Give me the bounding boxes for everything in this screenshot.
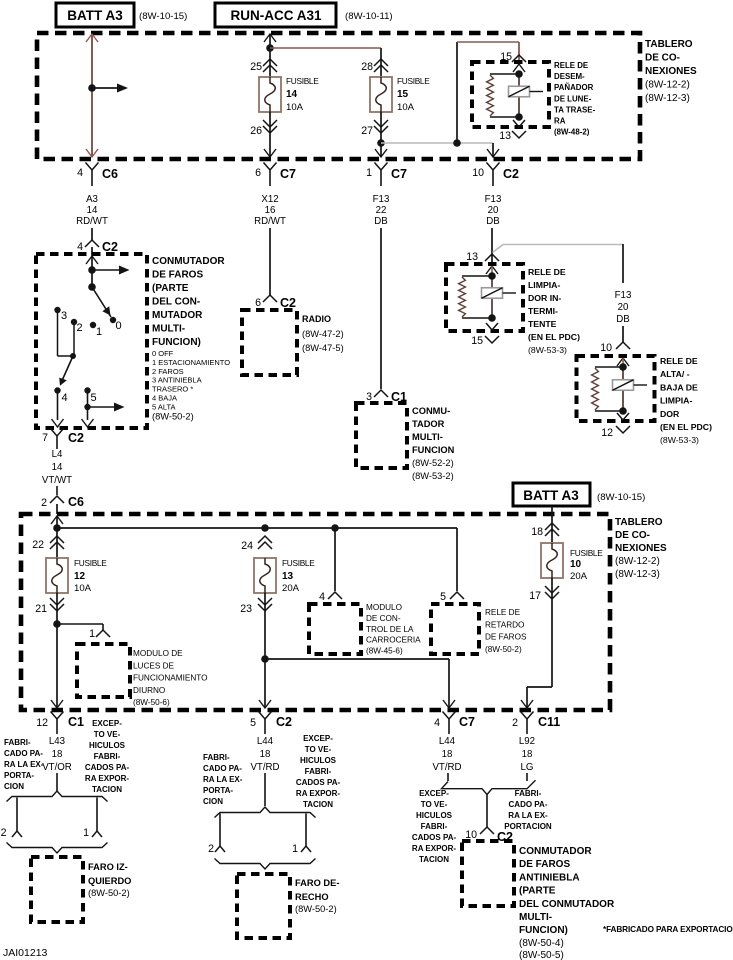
svg-text:4: 4 xyxy=(77,167,83,179)
svg-text:RA: RA xyxy=(554,117,566,126)
junction node RUN-ACC xyxy=(266,44,274,52)
svg-text:13: 13 xyxy=(466,251,478,263)
wire contact 3 down xyxy=(57,312,59,356)
wire contact 5 down xyxy=(87,392,89,420)
merge brace (fog lamp switch) xyxy=(442,780,536,794)
arrow into top border (BATT A3) xyxy=(86,34,98,42)
connector 5 C2 (bottom) xyxy=(259,712,272,720)
connector 6 C7 xyxy=(264,163,277,171)
svg-text:JAI01213: JAI01213 xyxy=(3,947,48,959)
svg-text:TERMI-: TERMI- xyxy=(528,306,558,316)
svg-text:FABRI-: FABRI- xyxy=(421,822,448,831)
wire fuse F14 to connector C7 xyxy=(269,112,271,157)
svg-text:(8W-45-6): (8W-45-6) xyxy=(366,647,403,656)
svg-text:TADOR: TADOR xyxy=(412,419,445,429)
svg-text:(8W-53-3): (8W-53-3) xyxy=(660,435,699,445)
junction block TABLERO DE CONEXIONES (bottom) xyxy=(21,514,610,710)
svg-text:CION: CION xyxy=(203,797,223,806)
svg-text:15: 15 xyxy=(471,335,483,347)
svg-text:TACION: TACION xyxy=(92,785,122,794)
bus wire in lower block xyxy=(57,527,457,529)
svg-text:C7: C7 xyxy=(459,715,475,729)
svg-text:CADOS PA-: CADOS PA- xyxy=(85,763,130,772)
svg-text:(8W-12-2): (8W-12-2) xyxy=(615,556,660,567)
pin 18 of junction block xyxy=(545,523,559,530)
wire branch to DRL module xyxy=(57,623,103,625)
pin 4 chevron BCM xyxy=(328,592,342,599)
connector 2 C6 xyxy=(50,496,64,503)
svg-text:QUIERDO: QUIERDO xyxy=(88,876,131,886)
svg-text:X12: X12 xyxy=(261,194,278,205)
multifunction switch (dashed box) xyxy=(356,403,407,468)
pin 5 chevron delay relay xyxy=(450,592,464,599)
svg-text:L43: L43 xyxy=(49,736,65,747)
svg-text:5 ALTA: 5 ALTA xyxy=(152,402,176,411)
svg-text:DIURNO: DIURNO xyxy=(133,686,165,695)
wire fuse 15 top xyxy=(380,48,382,77)
connector 4 C2 xyxy=(85,240,99,247)
splice brace (left headlamp) xyxy=(7,791,108,802)
svg-text:TACION: TACION xyxy=(303,800,333,809)
svg-text:5: 5 xyxy=(91,392,97,404)
svg-text:4 BAJA: 4 BAJA xyxy=(152,394,177,403)
svg-text:1: 1 xyxy=(292,843,298,855)
left headlamp FARO IZQUIERDO (dashed box) xyxy=(31,857,83,922)
svg-text:FABRI-: FABRI- xyxy=(203,753,230,762)
svg-text:0 OFF: 0 OFF xyxy=(152,349,174,358)
svg-text:LIMPIA-: LIMPIA- xyxy=(528,280,560,290)
pin 13 chevron intermittent wiper relay xyxy=(485,254,499,261)
junction node bus left xyxy=(53,524,61,532)
power source RUN-ACC A31 (box) xyxy=(215,3,336,27)
svg-text:(8W-52-2): (8W-52-2) xyxy=(412,458,454,468)
pin 12 chevron at relay K3 bottom xyxy=(617,413,629,420)
svg-text:RELE DE: RELE DE xyxy=(554,61,588,70)
svg-text:DEL CON-: DEL CON- xyxy=(152,297,200,308)
wire drop to body control module xyxy=(334,528,336,591)
svg-text:2: 2 xyxy=(208,843,214,855)
svg-text:(8W-48-2): (8W-48-2) xyxy=(554,128,590,137)
svg-text:CONMU-: CONMU- xyxy=(412,406,450,416)
wire RUN-ACC to fuse 15 xyxy=(270,47,381,49)
svg-text:20A: 20A xyxy=(570,571,588,582)
svg-text:F13: F13 xyxy=(485,194,502,205)
pin 15 chevron at relay K2 bottom xyxy=(486,323,498,330)
arrow out of bottom border at C1 xyxy=(51,700,63,708)
lower wiper arm to position 4 xyxy=(61,356,74,384)
svg-text:RA LA EX-: RA LA EX- xyxy=(508,811,548,820)
svg-text:VT/OR: VT/OR xyxy=(42,762,72,773)
merge brace (right headlamp) xyxy=(215,859,316,870)
svg-text:DB: DB xyxy=(616,314,629,325)
svg-text:14: 14 xyxy=(87,205,98,216)
svg-text:5: 5 xyxy=(440,591,446,603)
svg-text:LIMPIA-: LIMPIA- xyxy=(660,396,692,406)
svg-text:MUTADOR: MUTADOR xyxy=(152,310,203,321)
pin 26 of junction block xyxy=(263,120,277,127)
svg-text:C6: C6 xyxy=(68,495,84,509)
svg-text:RADIO: RADIO xyxy=(302,314,331,324)
svg-text:C1: C1 xyxy=(68,715,84,729)
svg-text:CADOS PA-: CADOS PA- xyxy=(296,778,341,787)
svg-text:DE CO-: DE CO- xyxy=(615,530,650,541)
svg-text:TABLERO: TABLERO xyxy=(645,39,693,50)
svg-text:22: 22 xyxy=(32,539,44,551)
junction node on 5 output xyxy=(84,404,90,410)
connector 2 C11 xyxy=(521,712,534,720)
svg-text:3 ANTINIEBLA: 3 ANTINIEBLA xyxy=(152,376,202,385)
svg-text:FABRI-: FABRI- xyxy=(4,738,31,747)
svg-text:22: 22 xyxy=(376,205,387,216)
svg-text:FUSIBLE: FUSIBLE xyxy=(286,76,319,86)
wire stub from C7 xyxy=(447,773,449,781)
svg-text:7: 7 xyxy=(42,432,48,444)
svg-text:20: 20 xyxy=(488,205,499,216)
relay K3 RELE DE ALTA/BAJA DE LIMPIADOR (dashed box) xyxy=(577,356,655,421)
svg-text:RUN-ACC A31: RUN-ACC A31 xyxy=(230,8,321,23)
svg-text:2: 2 xyxy=(512,717,518,729)
svg-text:(8W-50-2): (8W-50-2) xyxy=(88,888,130,898)
svg-text:4: 4 xyxy=(77,241,83,253)
svg-text:L4: L4 xyxy=(52,449,63,460)
svg-text:FABRI-: FABRI- xyxy=(305,767,332,776)
svg-text:4: 4 xyxy=(319,591,325,603)
relay K3 coil and resistor xyxy=(595,366,623,368)
svg-text:ALTA/ -: ALTA/ - xyxy=(660,369,690,379)
wire up to relay branch xyxy=(456,42,458,143)
branch wire non-export (right) xyxy=(305,814,307,847)
svg-text:(8W-53-3): (8W-53-3) xyxy=(528,345,567,355)
headlamp delay relay (dashed box) xyxy=(431,604,479,654)
svg-text:TACION: TACION xyxy=(419,855,449,864)
svg-text:1: 1 xyxy=(366,167,372,179)
svg-text:DOR: DOR xyxy=(660,409,680,419)
svg-text:L44: L44 xyxy=(439,736,456,747)
arrow into relay box top xyxy=(513,64,525,72)
svg-text:FARO DE-: FARO DE- xyxy=(295,878,339,888)
junction node lower wiper pivot xyxy=(70,353,76,359)
svg-text:FUSIBLE: FUSIBLE xyxy=(397,76,430,86)
fuse F10 xyxy=(541,543,563,578)
svg-text:10A: 10A xyxy=(286,102,304,113)
svg-text:*FABRICADO PARA EXPORTACION: *FABRICADO PARA EXPORTACION xyxy=(603,925,733,934)
switch wiper arm to position 0 xyxy=(92,287,111,317)
relay K2 coil and resistor xyxy=(462,275,492,277)
connector 2 (right branch) xyxy=(215,846,225,852)
svg-text:(8W-50-2): (8W-50-2) xyxy=(485,645,522,654)
arrow out of bottom border at C2 xyxy=(259,700,271,708)
relay K2 RELE DE LIMPIADOR INTERMITENTE (dashed box) xyxy=(446,264,523,331)
wire across to connector C7 xyxy=(265,658,449,660)
wire fuse F15 to connector C7 xyxy=(380,112,382,157)
svg-text:18: 18 xyxy=(442,749,453,760)
svg-text:PORTA-: PORTA- xyxy=(203,786,233,795)
wire fuse F12 output xyxy=(56,593,58,708)
svg-text:F13: F13 xyxy=(615,290,632,301)
wire to connector 2 C6 xyxy=(56,486,58,495)
svg-text:RELE DE: RELE DE xyxy=(660,356,698,366)
svg-text:(EN EL PDC): (EN EL PDC) xyxy=(660,422,712,432)
svg-text:DE CON-: DE CON- xyxy=(366,614,401,623)
power source BATT A3 (box 2) xyxy=(513,483,590,506)
svg-text:ANTINIEBLA: ANTINIEBLA xyxy=(519,872,580,883)
svg-text:(8W-12-2): (8W-12-2) xyxy=(645,80,690,91)
svg-text:FUNCIONAMIENTO: FUNCIONAMIENTO xyxy=(133,674,207,683)
wire fuse 15 output bus (gray) xyxy=(381,142,493,144)
svg-text:DE FAROS: DE FAROS xyxy=(152,270,203,281)
svg-text:TO VE-: TO VE- xyxy=(94,730,121,739)
svg-text:18: 18 xyxy=(260,749,271,760)
svg-text:14: 14 xyxy=(286,89,298,100)
wire into lower junction block xyxy=(56,504,58,514)
wire X12 to radio xyxy=(269,228,271,295)
svg-text:HICULOS: HICULOS xyxy=(416,811,453,820)
arrow into relay K3 top xyxy=(617,358,629,366)
branch arrow inside switch xyxy=(92,269,119,271)
arrow out of bottom border at C11 xyxy=(521,700,533,708)
svg-text:BAJA DE: BAJA DE xyxy=(660,382,698,392)
wire BATT A3 into lower block xyxy=(551,506,553,543)
pin 24 of junction block xyxy=(258,536,272,543)
arrow out of bottom border at C7 xyxy=(443,700,455,708)
svg-text:(8W-12-3): (8W-12-3) xyxy=(645,93,690,104)
svg-text:10A: 10A xyxy=(74,583,92,594)
branch arrow from 5 output xyxy=(88,406,115,408)
svg-text:CARROCERIA: CARROCERIA xyxy=(366,636,421,645)
svg-text:FABRI-: FABRI- xyxy=(515,789,542,798)
radio (dashed box) xyxy=(242,310,297,375)
wire exit to connector C2 xyxy=(492,143,494,157)
svg-text:10A: 10A xyxy=(397,102,415,113)
svg-text:2: 2 xyxy=(41,497,47,509)
svg-text:MODULO: MODULO xyxy=(366,603,402,612)
svg-text:EXCEP-: EXCEP- xyxy=(419,789,449,798)
svg-text:6: 6 xyxy=(255,297,261,309)
svg-text:FABRI-: FABRI- xyxy=(94,752,121,761)
svg-text:VT/RD: VT/RD xyxy=(250,762,279,773)
svg-text:C2: C2 xyxy=(280,296,296,310)
svg-text:26: 26 xyxy=(250,125,262,137)
svg-text:10: 10 xyxy=(600,342,612,354)
svg-text:FUSIBLE: FUSIBLE xyxy=(570,548,603,558)
wire resume to relay K3 xyxy=(622,326,624,342)
svg-text:2: 2 xyxy=(77,322,83,334)
svg-text:C11: C11 xyxy=(538,715,560,729)
pin 22 of junction block xyxy=(50,536,64,543)
svg-text:(8W-50-2): (8W-50-2) xyxy=(295,904,337,914)
svg-text:CION: CION xyxy=(4,782,24,791)
svg-text:RA EXPOR-: RA EXPOR- xyxy=(412,844,456,853)
svg-text:C7: C7 xyxy=(391,167,407,181)
wire contact 2 down xyxy=(73,324,75,356)
branch wire non-export (left) xyxy=(96,798,98,832)
arrow into relay K2 top xyxy=(486,266,498,274)
svg-text:C6: C6 xyxy=(102,167,118,181)
pin 21 of junction block xyxy=(50,598,64,605)
connector 7 C2 xyxy=(51,429,64,437)
svg-text:DOR IN-: DOR IN- xyxy=(528,293,561,303)
junction node fog output xyxy=(261,655,269,663)
wire stub from C11 xyxy=(526,773,528,781)
svg-text:TENTE: TENTE xyxy=(528,319,557,329)
svg-text:12: 12 xyxy=(601,427,613,439)
svg-text:1: 1 xyxy=(89,628,95,640)
svg-text:L44: L44 xyxy=(257,736,274,747)
svg-text:(8W-47-2): (8W-47-2) xyxy=(302,329,344,339)
svg-text:DB: DB xyxy=(486,216,499,227)
svg-text:A3: A3 xyxy=(86,194,98,205)
svg-text:(8W-47-5): (8W-47-5) xyxy=(302,343,344,353)
junction node to relay feed xyxy=(453,139,461,147)
svg-text:PAÑADOR: PAÑADOR xyxy=(554,83,594,92)
svg-text:TO VE-: TO VE- xyxy=(421,800,448,809)
wire L44 to splice brace xyxy=(264,773,266,806)
svg-text:10: 10 xyxy=(570,559,582,570)
svg-text:HICULOS: HICULOS xyxy=(300,756,337,765)
fuse F13b xyxy=(254,558,276,593)
svg-text:1: 1 xyxy=(96,326,102,338)
contact 2 xyxy=(71,319,77,325)
svg-text:RD/WT: RD/WT xyxy=(254,216,286,227)
svg-text:17: 17 xyxy=(529,590,541,602)
svg-text:5: 5 xyxy=(250,717,256,729)
svg-text:18: 18 xyxy=(531,526,543,538)
svg-text:TROL DE LA: TROL DE LA xyxy=(366,625,414,634)
wire across to relay pin 15 xyxy=(457,41,519,43)
arrow out of bottom border at C6 xyxy=(86,149,98,157)
connector 12 C1 xyxy=(51,712,64,720)
junction block TABLERO DE CONEXIONES (top) xyxy=(37,33,640,159)
wire BATT A3 feed xyxy=(91,35,93,157)
svg-text:(8W-10-11): (8W-10-11) xyxy=(345,11,393,22)
svg-text:CADOS PA-: CADOS PA- xyxy=(412,833,457,842)
svg-text:VT/WT: VT/WT xyxy=(42,475,72,486)
merge brace (left headlamp) xyxy=(7,843,108,854)
svg-text:RD/WT: RD/WT xyxy=(76,216,108,227)
fuse F15 xyxy=(370,77,392,112)
svg-text:FUSIBLE: FUSIBLE xyxy=(74,558,107,568)
fog lamp switch (dashed box) xyxy=(462,841,514,906)
svg-text:6: 6 xyxy=(255,167,261,179)
DRL module MODULO DE LUCES (dashed box) xyxy=(77,644,130,697)
svg-text:DE FAROS: DE FAROS xyxy=(485,633,527,642)
svg-text:(PARTE: (PARTE xyxy=(519,886,556,897)
branch wire export (right) xyxy=(219,814,221,847)
right headlamp FARO DERECHO (dashed box) xyxy=(237,874,290,938)
svg-text:LG: LG xyxy=(521,762,534,773)
wire contact 4 to connector xyxy=(57,392,59,420)
svg-text:NEXIONES: NEXIONES xyxy=(645,66,697,77)
wire L43 to splice brace xyxy=(56,773,58,791)
svg-text:BATT A3: BATT A3 xyxy=(523,488,579,503)
switch wiper pivot xyxy=(88,283,96,291)
arrow into top border (RUN-ACC) xyxy=(264,34,276,42)
connector 4 C7 (bottom) xyxy=(443,712,456,720)
svg-text:FUNCION): FUNCION) xyxy=(152,337,201,348)
svg-text:20A: 20A xyxy=(282,583,300,594)
svg-text:C2: C2 xyxy=(68,431,84,445)
svg-text:C2: C2 xyxy=(102,240,118,254)
svg-text:0: 0 xyxy=(116,320,122,332)
svg-text:18: 18 xyxy=(522,749,533,760)
svg-text:RECHO: RECHO xyxy=(295,892,329,902)
svg-text:TO VE-: TO VE- xyxy=(305,745,332,754)
svg-text:TABLERO: TABLERO xyxy=(615,517,663,528)
svg-text:21: 21 xyxy=(35,603,47,615)
pin 15 of rear defogger relay xyxy=(512,55,526,62)
connector 2 (left branch) xyxy=(12,831,22,837)
junction node on BATT feed xyxy=(88,84,96,92)
relay K1 RELE DE DESEMPANADOR (dashed box) xyxy=(472,62,549,127)
svg-text:RA EXPOR-: RA EXPOR- xyxy=(85,774,129,783)
pin 13 chevron at relay bottom xyxy=(513,120,525,127)
relay K1 coil and resistor xyxy=(490,73,519,75)
wire switch common xyxy=(91,256,93,287)
svg-text:(PARTE: (PARTE xyxy=(152,283,189,294)
svg-text:1 ESTACIONAMIENTO: 1 ESTACIONAMIENTO xyxy=(152,358,230,367)
svg-text:FUNCION): FUNCION) xyxy=(519,925,568,936)
junction node fuse 15 output xyxy=(377,139,385,147)
connector 10 C2 (fog switch) xyxy=(480,827,494,834)
wire entry into lower block xyxy=(51,516,63,524)
wire branch (gray) to high/low relay xyxy=(503,244,623,246)
svg-text:2 FAROS: 2 FAROS xyxy=(152,367,184,376)
svg-text:20: 20 xyxy=(618,302,629,313)
wire RUN-ACC feed xyxy=(269,35,271,77)
svg-text:28: 28 xyxy=(361,61,373,73)
svg-text:FUNCION: FUNCION xyxy=(412,445,455,455)
svg-text:12: 12 xyxy=(36,717,48,729)
svg-text:24: 24 xyxy=(241,540,253,552)
svg-text:RELE DE: RELE DE xyxy=(528,267,566,277)
svg-text:C7: C7 xyxy=(280,167,296,181)
junction node DRL branch xyxy=(53,620,61,628)
svg-text:FUSIBLE: FUSIBLE xyxy=(282,558,315,568)
fuse F12 xyxy=(46,558,68,593)
svg-text:MULTI-: MULTI- xyxy=(519,912,552,923)
svg-text:DESEM-: DESEM- xyxy=(554,72,585,81)
svg-text:CADO PA-: CADO PA- xyxy=(203,764,242,773)
svg-text:(8W-10-15): (8W-10-15) xyxy=(597,492,645,503)
connector 1 (right branch) xyxy=(301,846,311,852)
contact 4 xyxy=(54,387,60,393)
wire into switch box xyxy=(91,247,93,256)
svg-text:F13: F13 xyxy=(373,194,390,205)
wire merged to fog switch xyxy=(486,794,488,827)
connector 1 C7 xyxy=(375,163,388,171)
connector 4 C6 xyxy=(86,163,99,171)
svg-text:13: 13 xyxy=(499,130,511,142)
svg-text:CADO PA-: CADO PA- xyxy=(509,800,548,809)
connector 1 (left branch) xyxy=(92,831,102,837)
svg-text:(8W-10-15): (8W-10-15) xyxy=(139,11,187,22)
svg-text:DE LUNE-: DE LUNE- xyxy=(554,94,592,103)
svg-text:DE FAROS: DE FAROS xyxy=(519,859,570,870)
svg-text:25: 25 xyxy=(250,61,262,73)
connector 10 C2 xyxy=(487,163,500,171)
wire F13 22 to multifunction switch xyxy=(380,228,382,389)
svg-text:VT/RD: VT/RD xyxy=(432,762,461,773)
svg-text:DB: DB xyxy=(374,216,387,227)
svg-text:2: 2 xyxy=(1,827,7,839)
contact 5 xyxy=(84,387,90,393)
svg-text:L92: L92 xyxy=(519,736,535,747)
svg-text:DE CO-: DE CO- xyxy=(645,53,680,64)
svg-text:RA LA EX-: RA LA EX- xyxy=(4,760,44,769)
body control module (dashed box) xyxy=(309,604,361,654)
svg-text:(8W-50-2): (8W-50-2) xyxy=(152,412,194,422)
svg-text:TA TRASE-: TA TRASE- xyxy=(554,105,596,114)
